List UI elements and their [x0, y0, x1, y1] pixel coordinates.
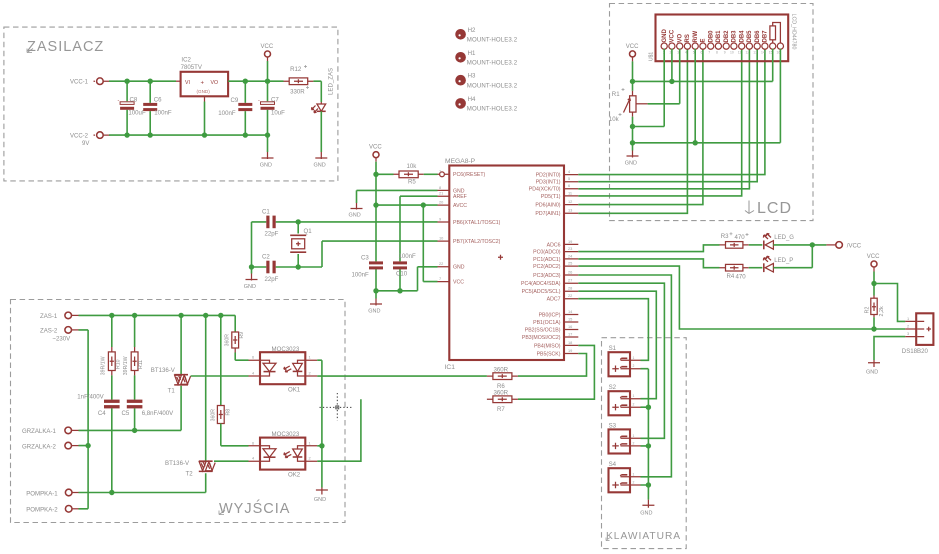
svg-text:R4: R4: [727, 273, 735, 280]
svg-text:H1: H1: [468, 50, 476, 57]
svg-text:VCC-2: VCC-2: [70, 134, 89, 140]
svg-text:100nF: 100nF: [218, 110, 236, 117]
svg-text:ZASILACZ: ZASILACZ: [27, 39, 104, 55]
ground GND (under C7 rail): [267, 135, 269, 152]
capacitor C2 22pF: [252, 266, 299, 268]
svg-text:27: 27: [568, 278, 572, 283]
svg-text:R11: R11: [138, 360, 144, 369]
svg-text:22: 22: [568, 293, 572, 298]
wire gnd bottom (C3/C10): [376, 267, 438, 291]
svg-text:1: 1: [309, 355, 311, 360]
svg-text:28: 28: [568, 286, 572, 291]
svg-text:ZAS-2: ZAS-2: [40, 328, 58, 335]
svg-text:6: 6: [252, 440, 254, 445]
svg-text:LCD_HD44780: LCD_HD44780: [790, 14, 796, 50]
svg-text:C10: C10: [396, 271, 408, 278]
svg-text:2: 2: [633, 481, 635, 485]
svg-text:GND: GND: [314, 163, 326, 169]
capacitor C10 100nF: [399, 269, 401, 291]
svg-text:1: 1: [633, 356, 635, 360]
svg-text:LED_P: LED_P: [774, 258, 793, 264]
svg-text:VCC: VCC: [369, 145, 382, 151]
svg-text:GND: GND: [640, 511, 652, 517]
wire pompka-1 rail: [79, 473, 206, 492]
svg-text:VO: VO: [211, 80, 219, 86]
svg-text:470: 470: [736, 273, 747, 280]
svg-text:23: 23: [568, 246, 572, 251]
svg-text:AREF: AREF: [453, 194, 467, 200]
svg-text:7805TV: 7805TV: [181, 64, 203, 71]
svg-text:PB5(SCK): PB5(SCK): [537, 351, 561, 357]
svg-text:12: 12: [746, 51, 750, 55]
svg-text:R12: R12: [290, 66, 302, 73]
svg-text:S2: S2: [609, 384, 617, 391]
svg-text:R/W: R/W: [693, 31, 699, 43]
svg-text:H4: H4: [468, 96, 476, 103]
optocoupler OK1 MOC3023: [260, 352, 305, 384]
svg-text:16: 16: [568, 324, 572, 329]
switch S2: [609, 391, 631, 415]
wire S4 net: [578, 275, 671, 477]
wire vcc to connector pin1: [874, 284, 905, 322]
svg-text:22pF: 22pF: [265, 276, 279, 283]
svg-text:2: 2: [633, 403, 635, 407]
svg-text:PB7(XTAL2/TOSC2): PB7(XTAL2/TOSC2): [453, 239, 501, 245]
svg-text:C5: C5: [122, 410, 130, 417]
triac T1 BT136-V: [180, 315, 182, 374]
trimmer R1 10k: [632, 81, 634, 90]
svg-text:22: 22: [439, 261, 443, 266]
frame KLAWIATURA: [602, 338, 687, 549]
svg-text:GND: GND: [349, 213, 361, 219]
svg-text:C2: C2: [262, 254, 270, 261]
svg-text:VCC: VCC: [867, 254, 880, 260]
supply symbol VCC (zasilacz): [265, 51, 271, 57]
svg-text:19: 19: [568, 239, 572, 244]
wire lcd DB6 net: [578, 49, 757, 182]
pad ZAS-1: [65, 312, 72, 319]
wire lcd VO net (wiper): [648, 49, 680, 104]
svg-text:10: 10: [730, 51, 734, 55]
svg-text:DB6: DB6: [755, 30, 761, 43]
svg-text:C6: C6: [154, 97, 162, 104]
capacitor C5 6,8nF/400V: [134, 375, 136, 430]
pad POMPKA-1: [65, 489, 72, 496]
wire OK1 to R6: [317, 375, 487, 377]
wire R8 to OK2: [221, 424, 249, 446]
svg-text:10k: 10k: [609, 116, 620, 123]
optocoupler OK2 MOC3023: [260, 438, 305, 470]
svg-text:PC3(ADC3): PC3(ADC3): [533, 273, 561, 279]
svg-text:PB2(SS/OC1B): PB2(SS/OC1B): [525, 327, 561, 333]
svg-text:MOUNT-HOLE3.2: MOUNT-HOLE3.2: [467, 106, 518, 113]
wire R6 net (pin to resistor): [518, 354, 587, 377]
resistor R4 470: [720, 267, 749, 269]
pad VCC-2: [97, 132, 104, 139]
svg-text:2: 2: [633, 364, 635, 368]
svg-text:8: 8: [439, 185, 441, 190]
svg-text:3: 3: [907, 331, 909, 336]
svg-text:MOUNT-HOLE3.2: MOUNT-HOLE3.2: [467, 37, 518, 44]
svg-text:VCC: VCC: [670, 29, 676, 42]
capacitor C6 100nF: [149, 81, 151, 135]
resistor R7 360R: [487, 398, 518, 400]
svg-text:360R: 360R: [494, 366, 509, 373]
IC1 right pin names: [521, 173, 561, 358]
resistor R5 10k: [376, 173, 394, 175]
svg-text:2,2k: 2,2k: [879, 306, 885, 316]
svg-text:2: 2: [309, 371, 311, 376]
svg-text:WYJŚCIA: WYJŚCIA: [219, 499, 290, 517]
svg-text:MOUNT-HOLE3.2: MOUNT-HOLE3.2: [467, 83, 518, 90]
svg-text:OK2: OK2: [288, 472, 301, 479]
wire IC2 gnd pin: [204, 96, 206, 101]
svg-text:6: 6: [568, 183, 570, 188]
svg-text:39R/1W: 39R/1W: [100, 356, 106, 375]
svg-text:6: 6: [252, 355, 254, 360]
svg-text:+: +: [201, 80, 205, 86]
svg-text:7: 7: [439, 276, 441, 281]
svg-text:330R: 330R: [290, 89, 305, 96]
svg-text:DB7: DB7: [763, 30, 769, 43]
ground GND (crystal): [251, 267, 253, 274]
svg-text:PB1(OC1A): PB1(OC1A): [533, 320, 561, 326]
lcd pin numbers: [663, 51, 781, 55]
triac T2 BT136-V: [205, 315, 207, 461]
svg-text:470: 470: [735, 234, 746, 241]
svg-text:E: E: [701, 38, 707, 42]
svg-text:PD6(AIN0): PD6(AIN0): [535, 203, 560, 209]
svg-text:C8: C8: [130, 97, 138, 104]
svg-text:GND: GND: [314, 497, 326, 503]
svg-text:LED_G: LED_G: [774, 235, 794, 241]
wire XTAL1 net: [298, 221, 437, 223]
svg-text:15: 15: [568, 316, 572, 321]
svg-text:360R: 360R: [210, 409, 216, 422]
svg-text:C4: C4: [98, 410, 106, 417]
svg-text:PC6(/RESET): PC6(/RESET): [453, 172, 486, 178]
cursor crosshair: [320, 393, 353, 421]
svg-text:IC1: IC1: [445, 364, 456, 371]
svg-text:100nF: 100nF: [352, 272, 370, 279]
svg-text:R10: R10: [115, 359, 121, 369]
mount hole H4: [455, 98, 466, 109]
svg-text:PB4(MISO): PB4(MISO): [534, 343, 561, 349]
svg-text:R2: R2: [864, 307, 870, 314]
resistor R10 39R/1W: [111, 315, 113, 347]
wire AGND net: [357, 190, 438, 203]
svg-text:BT136-V: BT136-V: [165, 460, 190, 467]
svg-text:PD3(INT1): PD3(INT1): [536, 180, 561, 186]
svg-text:R9: R9: [239, 332, 245, 339]
svg-text:DB3: DB3: [732, 30, 738, 43]
wire ds18b20 data net: [578, 266, 905, 329]
wire S3 net: [578, 283, 664, 438]
svg-text:GND: GND: [662, 29, 668, 43]
svg-text:PC0(ADC0): PC0(ADC0): [533, 250, 561, 256]
svg-text:DB0: DB0: [709, 30, 715, 43]
LED LED_ZAS: [320, 102, 322, 104]
wire connector pin3 gnd: [874, 337, 905, 360]
svg-text:MOUNT-HOLE3.2: MOUNT-HOLE3.2: [467, 60, 518, 67]
svg-text:DB4: DB4: [740, 30, 746, 43]
svg-text:DS18B20: DS18B20: [902, 348, 929, 355]
svg-text:1: 1: [633, 472, 635, 476]
svg-text:VCC: VCC: [261, 44, 274, 50]
LED LED_G: [749, 244, 763, 246]
svg-text:U$1: U$1: [649, 52, 655, 61]
supply symbol VCC (right): [871, 261, 877, 267]
svg-text:ADC7: ADC7: [547, 297, 561, 303]
pad /VCC: [826, 244, 835, 246]
wire lcd DB7 net: [578, 49, 765, 175]
svg-text:ZAS-1: ZAS-1: [40, 313, 58, 320]
svg-text:H2: H2: [468, 27, 476, 34]
svg-text:PB6(XTAL1/TOSC1): PB6(XTAL1/TOSC1): [453, 220, 501, 226]
svg-text:C7: C7: [271, 97, 279, 104]
frame WYJSCIA: [11, 300, 346, 523]
wire lcd E net: [578, 49, 703, 205]
IC1 pin numbers: [439, 169, 573, 353]
wire net VIN top: [109, 80, 176, 82]
wire T2 gate to OK2: [214, 460, 249, 462]
svg-text:10uF: 10uF: [271, 110, 285, 117]
svg-text:PC2(ADC2): PC2(ADC2): [533, 264, 561, 270]
ground GND (ds18b20): [868, 360, 880, 367]
svg-text:C9: C9: [231, 97, 239, 104]
lcd backlight resistor: [770, 26, 776, 40]
IC1 right pin stubs: [564, 175, 578, 354]
svg-text:21: 21: [439, 191, 443, 196]
svg-text:1: 1: [633, 434, 635, 438]
svg-text:GND: GND: [866, 370, 878, 376]
svg-text:C3: C3: [361, 255, 369, 262]
svg-text:1: 1: [439, 169, 441, 174]
resistor R11 39R/1W: [134, 315, 136, 347]
capacitor C9 100nF: [244, 81, 246, 135]
wire S1 net: [578, 299, 648, 361]
svg-text:39R/1W: 39R/1W: [123, 356, 129, 375]
svg-text:100nF: 100nF: [154, 110, 172, 117]
svg-text:MOC3023: MOC3023: [272, 431, 300, 438]
svg-text:PC5(ADC5/SCL): PC5(ADC5/SCL): [522, 289, 561, 295]
resistor R6 360R: [487, 375, 518, 377]
svg-text:AVCC: AVCC: [453, 203, 467, 209]
svg-text:ADC6: ADC6: [547, 242, 561, 248]
svg-text:9: 9: [439, 216, 441, 221]
svg-text:26: 26: [568, 269, 572, 274]
svg-text:S1: S1: [609, 345, 617, 352]
pad GRZALKA-2: [65, 442, 72, 449]
wire net VIN bottom rail: [109, 134, 268, 136]
svg-text:GRZALKA-2: GRZALKA-2: [22, 443, 56, 450]
svg-text:R7: R7: [497, 406, 505, 413]
svg-text:KLAWIATURA: KLAWIATURA: [606, 531, 681, 542]
svg-text:100nF: 100nF: [399, 253, 417, 260]
svg-text:9: 9: [724, 51, 726, 55]
svg-text:13: 13: [568, 208, 572, 213]
mount hole H2: [455, 29, 466, 40]
svg-text:12: 12: [568, 199, 572, 204]
ground GND (lcd): [632, 143, 634, 151]
wire lcd vcc rail: [633, 49, 773, 82]
svg-text:PC1(ADC1): PC1(ADC1): [533, 257, 561, 263]
svg-text:MOC3023: MOC3023: [272, 346, 300, 353]
svg-text:11: 11: [568, 190, 572, 195]
wire R9 to OK1: [235, 353, 248, 361]
svg-text:GND: GND: [260, 163, 272, 169]
capacitor C4 1nF/400V: [111, 375, 113, 492]
svg-text:14: 14: [761, 51, 765, 55]
svg-text:GND: GND: [453, 265, 465, 271]
svg-text:4: 4: [685, 51, 687, 55]
svg-text:R3: R3: [721, 233, 729, 240]
svg-text:1nF/400V: 1nF/400V: [77, 393, 104, 400]
svg-text:GRZALKA-1: GRZALKA-1: [22, 428, 56, 435]
svg-text:POMPKA-2: POMPKA-2: [26, 507, 58, 514]
svg-text:R8: R8: [225, 409, 231, 416]
lcd pin circles: [661, 43, 783, 49]
svg-text:PD2(INT0): PD2(INT0): [536, 173, 561, 179]
svg-text:S3: S3: [609, 422, 617, 429]
svg-text:-: -: [118, 98, 120, 104]
wire lcd DB4 net: [578, 49, 741, 196]
svg-text:PB3(MOSI/OC2): PB3(MOSI/OC2): [522, 335, 561, 341]
IC1 left pin names: [453, 172, 501, 285]
svg-text:7: 7: [708, 51, 710, 55]
capacitor C1 22pF: [252, 221, 299, 223]
svg-text:10k: 10k: [407, 163, 418, 170]
svg-text:H3: H3: [468, 73, 476, 80]
svg-text:1: 1: [633, 394, 635, 398]
wire S2 net: [578, 291, 656, 399]
supply symbol VCC (lcd): [630, 51, 636, 57]
wire OK1/OK2 cathodes to gnd: [317, 360, 322, 487]
wire led_p net: [578, 259, 719, 268]
svg-text:OK1: OK1: [288, 386, 301, 393]
pad VCC-1: [97, 78, 104, 85]
svg-text:S4: S4: [609, 461, 617, 468]
wire AREF net to C10: [400, 196, 438, 261]
svg-text:DB1: DB1: [716, 30, 722, 43]
wire reset net: [424, 173, 438, 175]
svg-text:BT136-V: BT136-V: [151, 367, 176, 374]
svg-text:360R: 360R: [225, 334, 231, 347]
svg-text:DB5: DB5: [747, 30, 753, 43]
switch S3: [609, 429, 631, 453]
svg-text:GND: GND: [368, 309, 380, 315]
wire lcd DB5 net: [578, 49, 749, 189]
svg-text:VCC: VCC: [626, 44, 639, 50]
connector DS18B20 body: [916, 313, 933, 345]
wire crystal left vertical: [251, 222, 253, 267]
svg-text:2: 2: [633, 441, 635, 445]
resistor R2 2,2k: [873, 296, 875, 318]
IC1 reset bubble: [440, 172, 445, 177]
svg-text:PB0(ICP): PB0(ICP): [539, 312, 561, 318]
svg-text:/VCC: /VCC: [847, 244, 862, 250]
regulator IC2 7805TV: [181, 72, 229, 97]
mount hole H1: [455, 52, 466, 63]
svg-text:(GND): (GND): [197, 89, 211, 94]
svg-text:GND: GND: [244, 284, 256, 290]
svg-text:PC4(ADC4/SDA): PC4(ADC4/SDA): [521, 281, 561, 287]
resistor R3 470: [720, 244, 749, 246]
svg-text:LCD: LCD: [757, 200, 792, 217]
connector U$1 LCD_HD44780 body: [656, 15, 789, 62]
pad ZAS-2: [65, 327, 72, 334]
junction dots bottom rail: [124, 132, 129, 137]
wire R7 net (pin to resistor): [518, 345, 595, 399]
svg-text:5: 5: [568, 176, 570, 181]
svg-text:19: 19: [568, 348, 572, 353]
wire led_g net: [578, 245, 719, 252]
svg-text:IC2: IC2: [181, 57, 191, 64]
svg-text:1: 1: [309, 440, 311, 445]
svg-text:VO: VO: [678, 33, 684, 42]
wire AVCC net: [376, 204, 438, 206]
svg-text:9V: 9V: [82, 141, 89, 147]
capacitor C7 10uF: [267, 81, 269, 135]
svg-text:T2: T2: [186, 471, 194, 478]
lcd pin labels: [662, 29, 769, 43]
ground GND (C3/C10): [375, 291, 377, 299]
wire lcd RS net: [578, 49, 687, 214]
IC1 left pin stubs: [438, 174, 450, 281]
svg-text:R5: R5: [408, 179, 416, 186]
crystal Q1: [297, 222, 299, 267]
ground GND (agnd): [351, 203, 363, 210]
svg-text:VCC: VCC: [453, 280, 464, 286]
resistor R9 360R: [234, 331, 236, 332]
resistor R12: [284, 80, 314, 82]
LED LED_P: [749, 267, 763, 269]
pad GRZALKA-1: [65, 427, 72, 434]
svg-text:1: 1: [907, 316, 909, 321]
wire neutral ZAS-2 vertical: [79, 330, 89, 509]
svg-text:PD4(XCK/T0): PD4(XCK/T0): [529, 187, 561, 193]
switch S4: [609, 468, 631, 492]
svg-text:VCC-1: VCC-1: [70, 80, 89, 86]
capacitor C3 100nF: [375, 269, 377, 291]
svg-text:2: 2: [309, 456, 311, 461]
ground GND (keyboard): [642, 500, 654, 508]
svg-text:PD5(T1): PD5(T1): [541, 194, 561, 200]
wire XTAL2 net: [298, 241, 437, 267]
wire grzalka-1 rail: [79, 386, 182, 431]
svg-text:GND: GND: [625, 161, 637, 167]
wire T1 gate to OK1: [191, 375, 249, 377]
supply symbol VCC (mcu): [373, 152, 379, 158]
switch S1: [609, 352, 631, 376]
capacitor C8 100uF: [126, 81, 128, 135]
mount hole H3: [455, 75, 466, 86]
svg-text:Q1: Q1: [304, 228, 313, 235]
svg-text:R1: R1: [612, 91, 620, 98]
wire lcd gnd net: [632, 112, 634, 117]
svg-text:8: 8: [716, 51, 718, 55]
ground GND (under LED_ZAS): [315, 152, 327, 159]
wire OK2 to R7: [317, 399, 361, 461]
svg-text:6,8nF/400V: 6,8nF/400V: [142, 410, 174, 417]
junction dots top rail: [124, 79, 129, 84]
svg-text:RS: RS: [685, 34, 691, 42]
svg-text:13: 13: [753, 51, 757, 55]
svg-text:~230V: ~230V: [52, 336, 71, 343]
svg-text:LED_ZAS: LED_ZAS: [328, 68, 335, 95]
svg-text:T1: T1: [168, 387, 176, 394]
svg-text:11: 11: [738, 51, 742, 55]
